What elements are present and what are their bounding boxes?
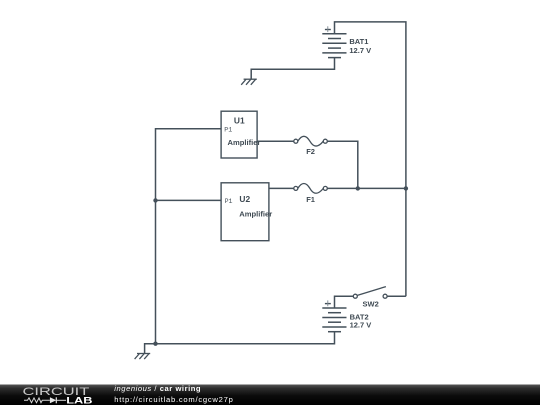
fuse F2 xyxy=(294,136,328,146)
svg-text:12.7 V: 12.7 V xyxy=(349,46,371,55)
wire: BAT2 bottom lead to bottom ground run xyxy=(145,332,335,354)
svg-text:BAT1: BAT1 xyxy=(349,37,368,46)
footer bar xyxy=(0,385,540,405)
CircuitLab logo resistor zigzag xyxy=(24,398,50,403)
svg-text:Amplifier: Amplifier xyxy=(239,210,272,219)
wire: BAT1 bottom lead to ground xyxy=(251,58,334,80)
wire: fuse F2 output down to F1 net xyxy=(327,141,358,188)
svg-text:P1: P1 xyxy=(225,198,233,205)
wire: SW2 left terminal to BAT2 top lead xyxy=(335,296,354,308)
svg-text:http://circuitlab.com/cgcw27p: http://circuitlab.com/cgcw27p xyxy=(114,395,233,404)
svg-text:U2: U2 xyxy=(239,194,250,204)
switch SW2 xyxy=(353,287,387,299)
CircuitLab logo diode xyxy=(50,397,56,403)
svg-text:SW2: SW2 xyxy=(363,300,379,309)
node: junction left rail / bottom wire xyxy=(153,342,157,346)
wire: U1 output to fuse F2 xyxy=(257,140,294,142)
svg-text:Amplifier: Amplifier xyxy=(228,138,261,147)
node: junction F1 wire / right rail xyxy=(404,186,408,190)
wire: fuse F1 output to right rail xyxy=(327,187,406,189)
wire: U2 output to fuse F1 xyxy=(269,187,294,189)
fuse F1 xyxy=(294,184,328,194)
BAT2 plus sign xyxy=(325,300,331,306)
battery BAT1 xyxy=(322,34,346,58)
CircuitLab logo wire to LAB xyxy=(56,399,66,401)
op-amp box U2 xyxy=(221,183,269,241)
wire: U1 input P1 to left rail, left rail down to bottom xyxy=(156,129,222,344)
ground (chassis, top) xyxy=(241,79,257,85)
svg-text:U1: U1 xyxy=(234,116,245,126)
node: junction left rail / U2 input xyxy=(153,198,157,202)
wire: U2 input P1 to left rail xyxy=(156,199,222,201)
svg-text:ingenious / car wiring: ingenious / car wiring xyxy=(114,384,201,393)
op-amp box U1 xyxy=(221,111,257,158)
svg-text:12.7 V: 12.7 V xyxy=(350,320,372,329)
wire: BAT1 top lead, top wire and right rail down to SW2 xyxy=(335,22,406,296)
battery BAT2 xyxy=(322,308,346,332)
svg-text:F2: F2 xyxy=(306,147,315,156)
svg-text:P1: P1 xyxy=(224,127,232,134)
svg-text:LAB: LAB xyxy=(66,396,92,405)
ground (chassis, bottom) xyxy=(135,354,151,360)
node: junction F2 branch / F1 wire xyxy=(356,186,360,190)
BAT1 plus sign xyxy=(325,26,331,32)
wire: SW2 right terminal to right rail xyxy=(387,295,406,297)
svg-text:F1: F1 xyxy=(306,195,315,204)
